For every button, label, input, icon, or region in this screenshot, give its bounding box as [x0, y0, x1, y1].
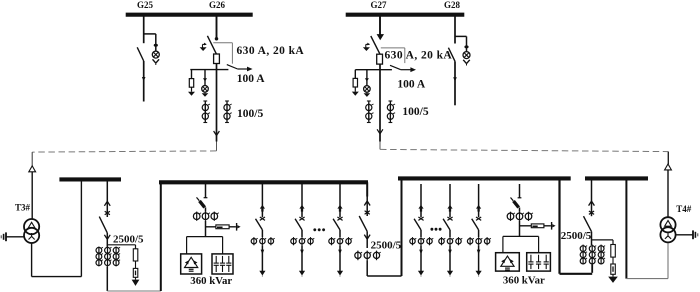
current transformers (3): [469, 237, 471, 245]
wire: [478, 230, 480, 237]
contact x-mark: [447, 217, 452, 220]
wire G27 main: [379, 64, 381, 141]
wire G28 tee: [455, 35, 467, 37]
arrow mark: [338, 250, 342, 255]
current transformers (3): [293, 237, 295, 245]
node (junction dot): [154, 44, 158, 47]
arrow mark: [300, 250, 304, 255]
wire: [478, 245, 480, 271]
switch flag symbol: [202, 44, 204, 48]
wire: [354, 87, 356, 92]
contact x-mark: [260, 217, 265, 220]
svg-text:100/5: 100/5: [237, 108, 263, 120]
svg-text:100/5: 100/5: [402, 106, 428, 118]
current transformer pair (left): [368, 101, 370, 123]
wire T3 secondary: [31, 243, 33, 277]
wire riser to bus 4: [160, 181, 162, 292]
wire G26 drop: [216, 16, 218, 39]
drawout contact (arrow): [447, 205, 452, 209]
wire PT tee: [107, 244, 135, 246]
arrow to earth: [612, 274, 614, 276]
discharge device wire: [520, 225, 551, 227]
outgoing arrow: [299, 271, 305, 276]
surge arrester (G26): [202, 86, 209, 93]
drawout contact (chevron): [589, 201, 592, 206]
wire: [106, 233, 108, 247]
svg-text:2500/5: 2500/5: [371, 239, 402, 251]
wire: [612, 257, 614, 264]
contact x-mark: [337, 217, 342, 220]
node (junction dot): [464, 45, 468, 48]
discharge resistor: [216, 225, 229, 229]
fuse FU (G27): [377, 54, 383, 64]
svg-text:G25: G25: [137, 0, 154, 10]
wire: [301, 245, 303, 271]
discharge device wire: [206, 226, 236, 228]
terminal bar with arrow: [551, 222, 553, 230]
capacitor bank box (delta): [496, 253, 520, 271]
svg-text:360 kVar: 360 kVar: [190, 275, 232, 287]
current transformer pair (left): [204, 101, 206, 123]
drawout contact (chevron down): [104, 235, 107, 240]
wire T4 secondary: [667, 242, 669, 278]
arrow tick: [365, 78, 369, 81]
breaker blade: [99, 217, 107, 233]
drop-out fuse switch: [511, 198, 514, 201]
wire G27 drop: [379, 16, 381, 36]
bus 4 end drop: [366, 182, 368, 196]
wire G25 feeder: [143, 61, 145, 102]
breaker blade: [256, 219, 263, 230]
capacitor bank box (elements): [212, 254, 233, 274]
drawout contact (arrow): [476, 205, 481, 209]
wire PT tee: [592, 239, 614, 241]
outgoing arrow: [476, 271, 482, 276]
svg-text:100 A: 100 A: [397, 79, 425, 91]
wire riser from bus 6 to T4 circuit: [625, 180, 627, 278]
callout bracket 630A: [381, 47, 405, 49]
drawout contact (arrow): [418, 205, 423, 209]
contact x-mark: [105, 211, 110, 214]
voltage transformer element: [611, 264, 616, 274]
delta winding symbol: [28, 222, 35, 228]
load-break switch blade (G27): [371, 36, 380, 54]
breaker blade: [295, 219, 302, 230]
wire arrester branch: [155, 34, 157, 51]
fuse (PT): [611, 245, 616, 258]
svg-text:G26: G26: [209, 0, 226, 10]
feeder column from bus: [301, 184, 303, 217]
wire G28 feeder: [454, 61, 456, 105]
arrow to earth: [204, 92, 206, 93]
arrow mark: [261, 250, 265, 255]
current transformers (3): [253, 237, 255, 245]
wye winding symbol: [31, 233, 33, 236]
fuse (PT): [133, 249, 138, 261]
wire: [261, 245, 263, 271]
arrow (incoming, open): [29, 166, 36, 172]
arrow to earth: [188, 92, 195, 96]
arrow to earth: [366, 92, 368, 93]
breaker blade: [333, 219, 340, 230]
ground symbol (T4 neutral): [692, 230, 694, 239]
current transformer pair (right) 100/5: [226, 101, 228, 123]
bus 6 (section IV busbar): [585, 176, 648, 180]
wire: [591, 232, 593, 245]
wire G28 drop: [454, 16, 456, 44]
arrow (incoming, open): [665, 164, 672, 170]
bus 5 (section III busbar): [398, 176, 571, 180]
outgoing arrow: [337, 271, 343, 276]
wire with arrow: [401, 69, 412, 71]
wire to bottom: [591, 264, 593, 272]
bus 3 (section I busbar): [59, 177, 121, 181]
wire: [420, 245, 422, 271]
wire to bottom: [366, 260, 368, 276]
disconnector switch QS (G28): [448, 48, 455, 62]
current transformer grid 3x3: [98, 247, 100, 267]
delta winding symbol: [665, 221, 672, 227]
wire tee (PT branch): [355, 69, 392, 71]
feeder column from bus: [339, 184, 341, 217]
contact x-mark: [418, 217, 423, 220]
wire corner: [667, 152, 669, 164]
svg-text:630 A, 20 kA: 630 A, 20 kA: [385, 50, 453, 62]
wire: [519, 208, 521, 212]
contact x-mark: [299, 217, 304, 220]
feeder column from bus: [449, 184, 451, 217]
contact x-mark: [476, 217, 481, 220]
wire: [449, 230, 451, 237]
svg-text:630 A, 20 kA: 630 A, 20 kA: [237, 45, 305, 57]
svg-text:2500/5: 2500/5: [561, 230, 592, 242]
wire: [339, 245, 341, 271]
neutral wire: [675, 234, 692, 236]
wire capacitor feeder drop: [205, 184, 207, 198]
wire: [449, 245, 451, 271]
drawout contact (arrow): [337, 205, 342, 209]
current transformer grid 3x3: [582, 245, 584, 265]
ellipsis dots: [313, 228, 316, 231]
svg-text:T3#: T3#: [15, 202, 31, 212]
breaker blade: [584, 216, 592, 231]
drop-out fuse switch: [197, 197, 200, 200]
wire drop left: [186, 237, 188, 254]
ellipsis dots: [431, 228, 434, 231]
wire tee to capacitor boxes: [503, 235, 539, 237]
wire to cable link: [216, 142, 218, 151]
wire bottom run: [32, 276, 82, 278]
switch blade (outgoing): [227, 65, 238, 69]
current transformers (3): [510, 212, 512, 221]
feeder column from bus: [261, 184, 263, 217]
load-break switch blade (G26): [207, 36, 216, 54]
wire bottom link: [107, 290, 161, 292]
wire PT fuse drop: [191, 70, 193, 79]
breaker blade: [359, 216, 367, 231]
drawout contact (chevron): [104, 201, 107, 206]
wire to bottom: [106, 266, 108, 291]
wire: [339, 230, 341, 237]
voltage transformer element: [133, 268, 138, 277]
arrow (open, down): [214, 131, 217, 136]
wye winding symbol: [667, 232, 669, 235]
contact x-mark: [365, 211, 370, 214]
svg-text:G27: G27: [370, 0, 387, 10]
svg-text:360 kVar: 360 kVar: [503, 275, 545, 287]
wire PT fuse drop: [354, 70, 356, 79]
current transformer pair (right) 100/5: [389, 101, 391, 123]
arrow tick: [203, 78, 207, 81]
svg-text:T4#: T4#: [676, 204, 692, 214]
current transformers (3): [357, 251, 359, 261]
wire G25 drop: [143, 16, 145, 43]
wire: [261, 230, 263, 237]
fuse (PT): [189, 79, 193, 88]
cable link dashed (G26 to T3 section): [32, 151, 216, 152]
wire bottom run: [626, 278, 668, 280]
arrow (open, down): [377, 129, 380, 134]
capacitor bank box (delta): [181, 254, 202, 274]
disconnector switch QS (G25): [137, 47, 144, 61]
callout bracket 630A: [213, 42, 232, 44]
outgoing arrow: [447, 271, 453, 276]
bus 2 (G27/G28 busbar): [346, 13, 465, 17]
wire arrester drop: [366, 70, 368, 86]
wire tee (PT branch): [190, 69, 228, 71]
transformer T3: [24, 219, 39, 234]
wire corner: [31, 152, 33, 166]
wire to cable link: [379, 142, 381, 150]
wire: [519, 221, 521, 237]
current transformers (3): [412, 237, 414, 245]
capacitor bank box (elements): [527, 253, 551, 271]
drawout contact (arrow): [299, 205, 304, 209]
arrow (direction): [453, 77, 457, 81]
arrow mark: [419, 250, 423, 255]
surge arrester G25: [152, 51, 159, 58]
wire: [205, 207, 207, 211]
wire drop right: [538, 236, 540, 252]
neutral wire: [6, 236, 24, 238]
wire arrester drop: [204, 70, 206, 86]
switch flag symbol: [365, 44, 367, 48]
arrow mark: [448, 250, 452, 255]
arrow (direction down): [377, 34, 384, 40]
wire: [135, 261, 137, 268]
wire riser to bus 5: [558, 178, 560, 273]
fuse (PT): [353, 78, 357, 87]
surge arrester G28: [463, 52, 470, 59]
surge arrester (G27): [364, 86, 371, 93]
wire incoming column from bus 3: [106, 181, 108, 217]
wire drop left: [502, 236, 504, 252]
wire G26 main: [216, 64, 218, 142]
contact x-mark: [589, 211, 594, 214]
svg-text:100 A: 100 A: [237, 73, 265, 85]
outgoing arrow: [259, 271, 265, 276]
discharge resistor: [531, 224, 544, 228]
wire G25 tee: [144, 33, 156, 35]
arrow mark: [477, 250, 481, 255]
fuse FU (G26) 100 A: [214, 54, 220, 64]
breaker blade: [472, 219, 479, 230]
wire riser to bus 5: [401, 178, 403, 276]
feeder column from bus: [478, 184, 480, 217]
wire tie column from bus 6: [591, 180, 593, 216]
breaker blade: [414, 219, 421, 230]
wire: [420, 230, 422, 237]
ground symbol (T3 neutral): [5, 232, 7, 241]
wire arrester branch: [466, 36, 468, 51]
bus 1 (G25/G26 busbar): [126, 13, 253, 17]
feeder column from bus: [420, 184, 422, 217]
svg-text:2500/5: 2500/5: [113, 233, 144, 245]
wire capacitor feeder drop: [519, 184, 521, 198]
transformer T4: [660, 217, 675, 232]
wire to transformer T3: [31, 172, 33, 219]
breaker blade: [443, 219, 450, 230]
current transformers (3): [196, 212, 198, 221]
arrow to earth: [352, 92, 359, 96]
wire bottom link: [560, 273, 593, 275]
wire to transformer T4: [667, 170, 669, 218]
svg-text:G28: G28: [444, 0, 461, 10]
drawout contact (chevron down): [364, 235, 367, 240]
wire bottom link: [367, 275, 401, 277]
node A (junction dot): [215, 37, 218, 40]
arrow to ground (open chevron): [463, 60, 466, 64]
arrow to ground (open chevron): [153, 59, 156, 63]
current transformers (3): [331, 237, 333, 245]
switch blade (outgoing): [390, 65, 401, 69]
current transformers (3): [441, 237, 443, 245]
terminal bar with arrow: [236, 223, 238, 231]
wire tee to capacitor boxes: [187, 236, 223, 238]
cable link dashed (G27 to T4 section): [380, 149, 668, 151]
arrow (direction): [142, 77, 146, 81]
wire drop right: [222, 237, 224, 254]
wire tie column: [366, 197, 368, 217]
wire: [366, 231, 368, 248]
outgoing arrow: [418, 271, 424, 276]
arrow to earth: [135, 277, 137, 279]
wire: [205, 221, 207, 237]
wire with arrow 100 A: [238, 68, 248, 70]
wire riser to bus 3: [80, 179, 82, 276]
bus 4 (section II busbar): [159, 180, 368, 184]
drawout contact (arrow): [260, 205, 265, 209]
wire: [191, 87, 193, 92]
wire: [301, 230, 303, 237]
drawout contact (chevron): [364, 201, 367, 206]
